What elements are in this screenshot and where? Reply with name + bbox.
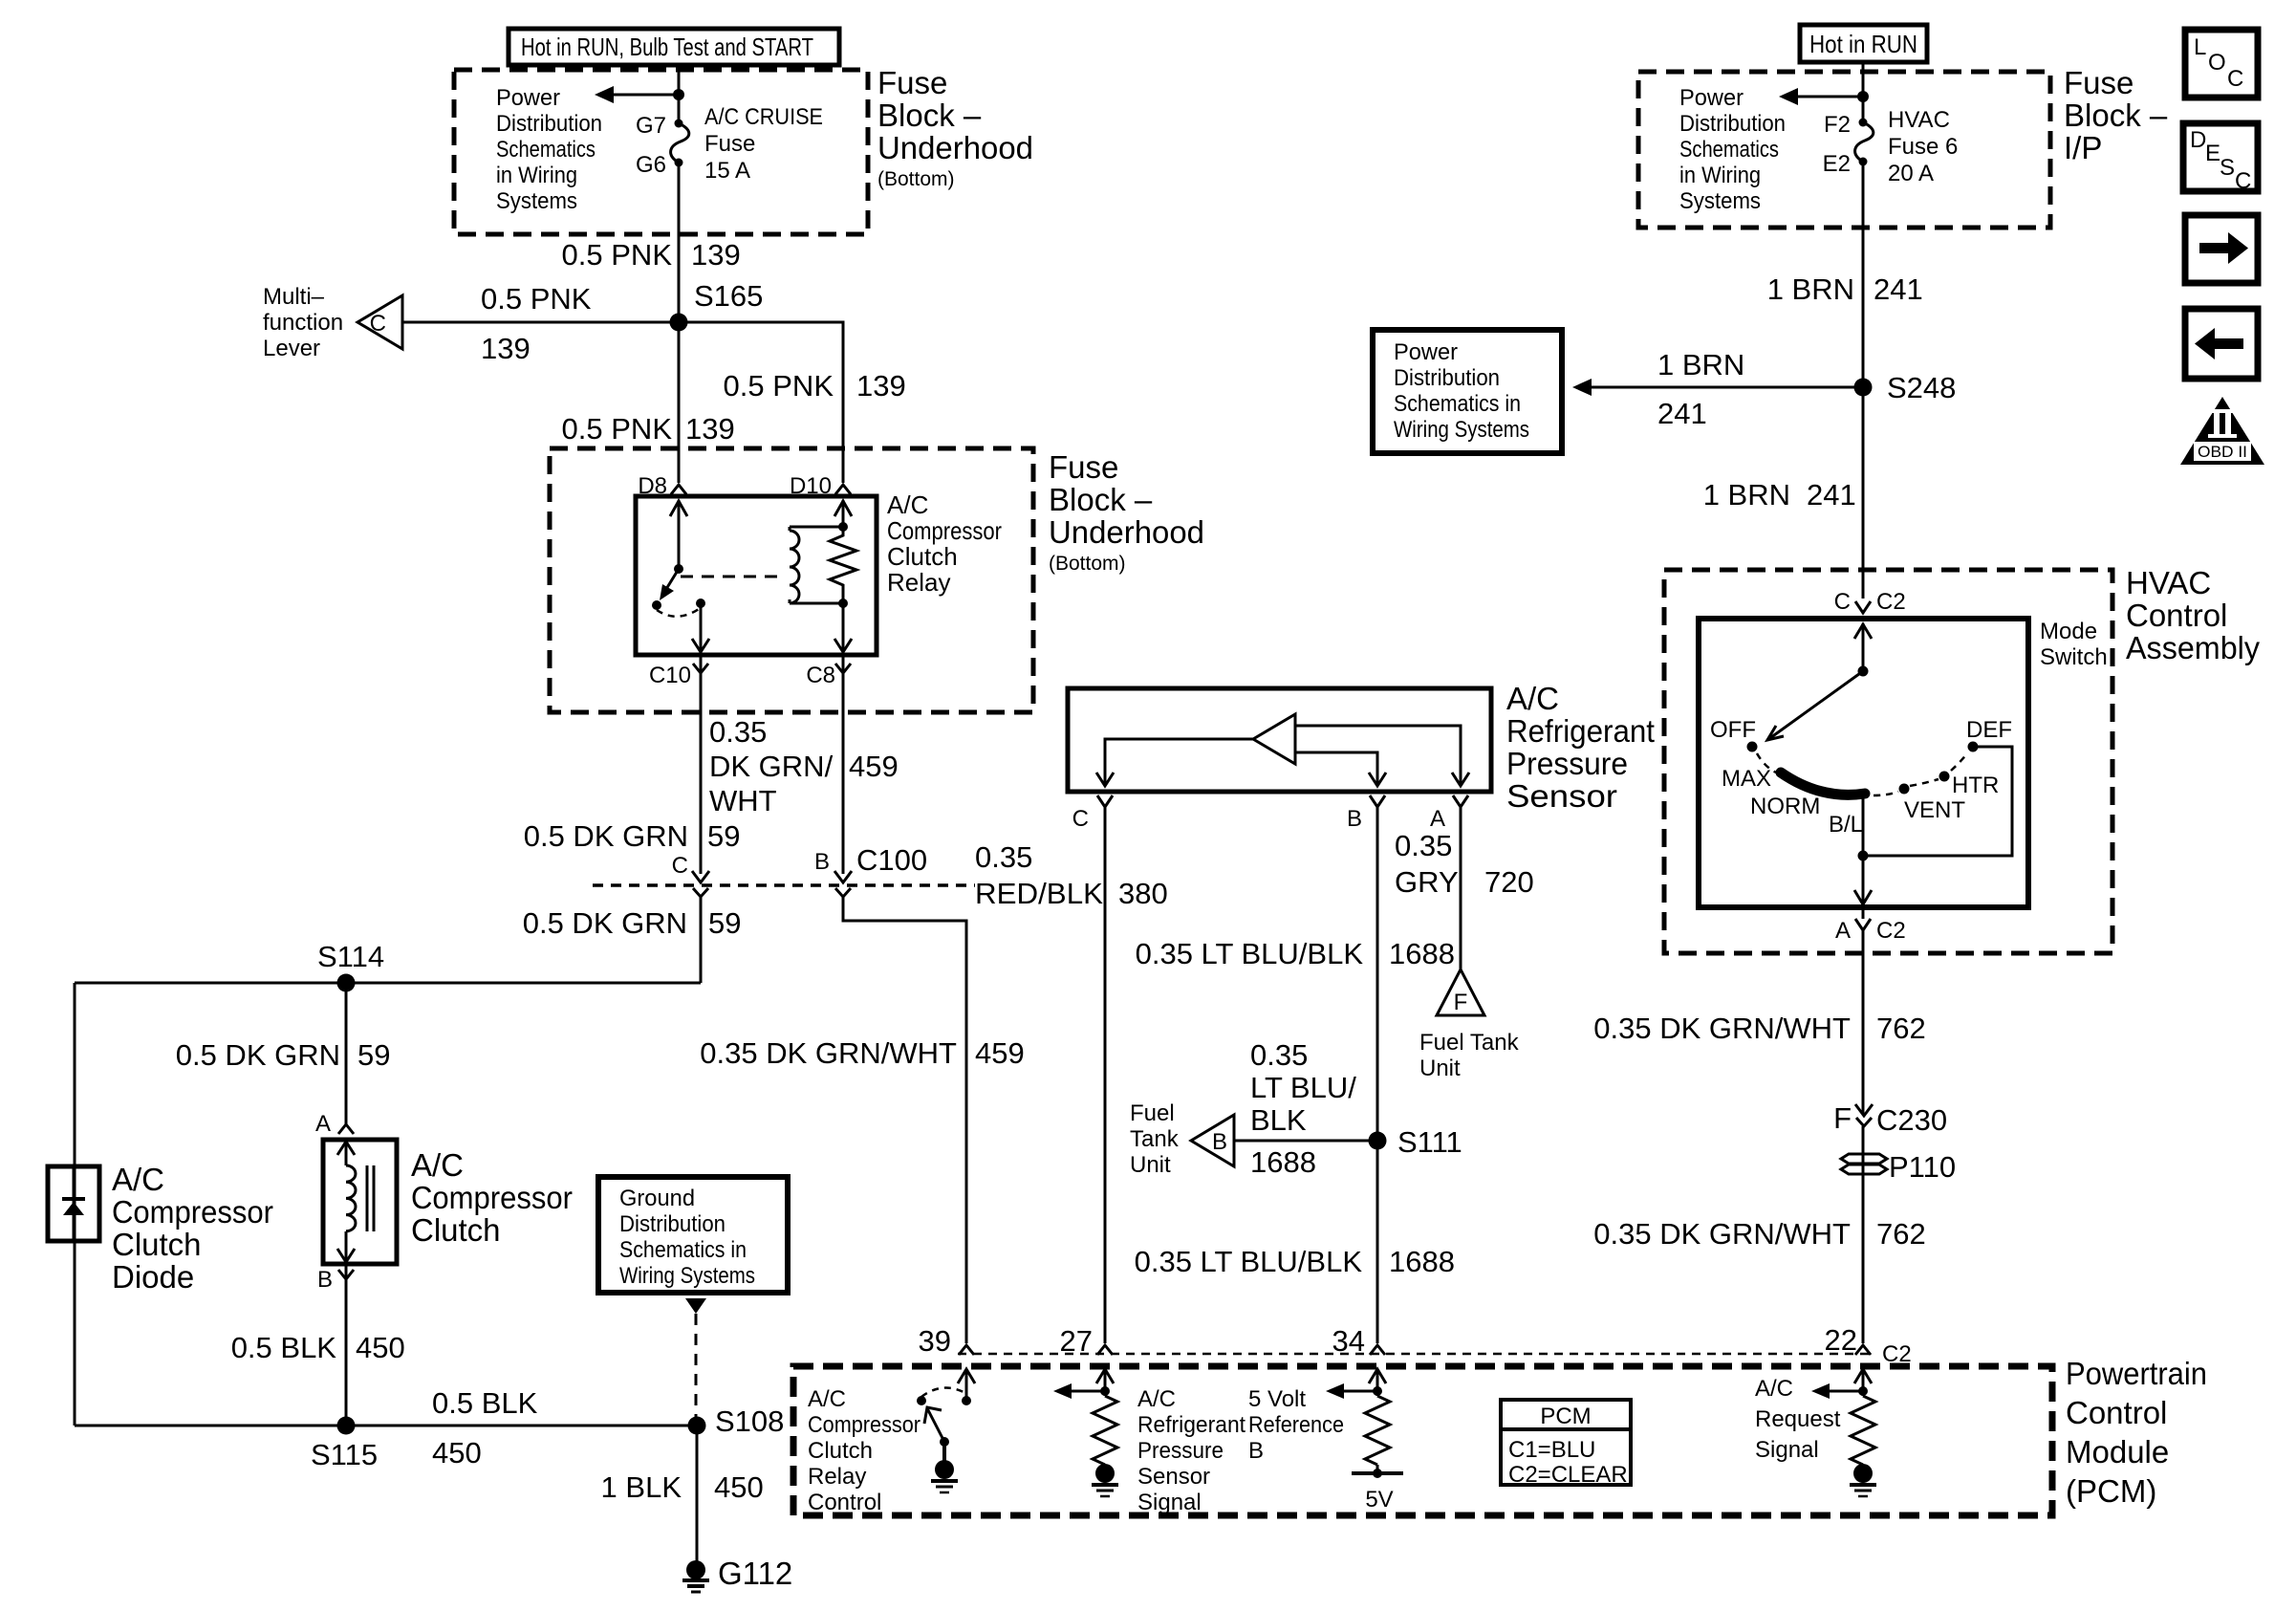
wire from Hot in RUN down: [1862, 62, 1865, 121]
label HVAC Control Assembly: [2126, 565, 2260, 665]
svg-text:in Wiring: in Wiring: [1679, 163, 1761, 188]
pin B of C100: [814, 843, 927, 897]
fuse value label "A/C CRUISE Fuse 15 A": [704, 104, 823, 184]
svg-text:59: 59: [708, 906, 741, 940]
svg-text:A/C: A/C: [411, 1147, 464, 1183]
svg-text:B/L: B/L: [1829, 812, 1863, 838]
svg-text:Fuel Tank: Fuel Tank: [1419, 1030, 1520, 1056]
svg-text:0.35: 0.35: [1395, 829, 1452, 862]
sensor label: [1506, 681, 1655, 814]
svg-text:1 BRN: 1 BRN: [1657, 348, 1744, 381]
svg-text:RED/BLK: RED/BLK: [975, 877, 1103, 910]
splice S165: [670, 314, 688, 332]
splice S114: [337, 974, 356, 992]
svg-text:F: F: [1833, 1101, 1852, 1135]
ground distribution schematics box: [598, 1177, 788, 1293]
svg-text:Fuel: Fuel: [1130, 1100, 1175, 1126]
label Multi-function Lever: [263, 284, 343, 361]
svg-text:E2: E2: [1823, 151, 1851, 177]
svg-text:Unit: Unit: [1130, 1152, 1171, 1178]
svg-text:A/C: A/C: [1506, 681, 1559, 716]
wire label 0.35 DK GRN/WHT 459 (3 lines): [709, 715, 899, 817]
svg-text:1688: 1688: [1250, 1145, 1316, 1179]
svg-text:Underhood: Underhood: [877, 130, 1033, 165]
fuse block underhood dashed box: [454, 70, 868, 234]
wire C230 to P110: [1862, 1126, 1865, 1186]
dashed throw arc: [657, 609, 699, 617]
svg-text:Fuse: Fuse: [704, 131, 755, 157]
pin 22 / C2: [1825, 1323, 1912, 1367]
svg-text:B: B: [1347, 806, 1362, 832]
diode symbol: [62, 1166, 85, 1241]
svg-text:Hot in RUN, Bulb Test and STAR: Hot in RUN, Bulb Test and START: [521, 33, 813, 61]
mode switch common wire with up arrow: [1854, 623, 1872, 677]
svg-text:1688: 1688: [1389, 937, 1455, 970]
label A/C Request Signal: [1755, 1376, 1841, 1463]
header box "Hot in RUN, Bulb Test and START": [509, 29, 839, 65]
pin C of C100: [672, 853, 709, 897]
wire label 0.35 RED/BLK 380: [975, 840, 1168, 910]
switch output to C10: [700, 603, 703, 650]
svg-text:Clutch: Clutch: [112, 1227, 202, 1262]
label Mode Switch: [2040, 619, 2108, 670]
svg-text:0.5 PNK: 0.5 PNK: [724, 369, 834, 403]
svg-text:0.35: 0.35: [1250, 1038, 1308, 1072]
wire C10 down to C100: [700, 673, 703, 874]
svg-text:Assembly: Assembly: [2126, 630, 2260, 665]
pin D8: [638, 473, 686, 499]
A/C refrigerant pressure sensor box: [1068, 688, 1491, 792]
clutch plates (two bars): [367, 1165, 374, 1231]
svg-text:S: S: [2220, 155, 2235, 181]
pin A of sensor: [1430, 795, 1468, 832]
wire S165 down to relay D8: [678, 322, 681, 483]
fuse HVAC Fuse 6 20A (F2-E2): [1855, 119, 1874, 166]
wiper arm to OFF: [1767, 671, 1863, 740]
svg-text:0.35 DK GRN/WHT: 0.35 DK GRN/WHT: [700, 1036, 957, 1070]
wire sensor B down to S111: [1376, 807, 1379, 1141]
PCM connector legend box: [1501, 1400, 1631, 1488]
svg-text:Block –: Block –: [2064, 98, 2168, 133]
relay label: [887, 490, 1002, 597]
pin D10: [790, 473, 851, 499]
relay coil: [790, 527, 845, 603]
svg-text:G6: G6: [636, 152, 666, 178]
margin icon arrow left: [2185, 309, 2258, 379]
svg-text:Tank: Tank: [1130, 1126, 1180, 1152]
mode switch box: [1699, 619, 2028, 907]
svg-text:380: 380: [1118, 877, 1168, 910]
margin icon DESC: [2183, 123, 2258, 194]
label "Fuse Block - I/P": [2064, 65, 2168, 165]
svg-text:1688: 1688: [1389, 1245, 1455, 1278]
svg-text:B: B: [1248, 1438, 1264, 1464]
svg-text:241: 241: [1657, 397, 1707, 430]
svg-text:HTR: HTR: [1952, 773, 1999, 798]
power distribution schematics note (I/P fuse block): [1679, 85, 1786, 214]
wire C100-C down to S114 line: [700, 897, 703, 983]
svg-text:Fuse 6: Fuse 6: [1888, 134, 1958, 160]
ground G112: [682, 1556, 792, 1592]
wire S115 to S108: [75, 1425, 697, 1427]
splice S108: [688, 1417, 706, 1435]
svg-text:59: 59: [357, 1038, 390, 1072]
sensor amplifier triangle: [1253, 714, 1295, 764]
svg-text:S108: S108: [715, 1404, 784, 1438]
output wire to bottom of mode switch: [1862, 856, 1865, 903]
svg-text:Multi–: Multi–: [263, 284, 325, 310]
svg-text:E: E: [2205, 141, 2220, 166]
label Fuel Tank Unit: [1419, 1030, 1520, 1081]
svg-text:Mode: Mode: [2040, 619, 2097, 644]
wire C100-B down and over to PCM pin 39: [843, 897, 966, 1343]
powertrain control module dashed box: [793, 1366, 2052, 1515]
wire to diode (left branch): [74, 983, 76, 1426]
dashed arc B/L to VENT to HTR: [1874, 792, 1898, 795]
A/C compressor clutch relay box: [636, 496, 877, 655]
svg-text:Reference: Reference: [1248, 1412, 1344, 1438]
svg-text:A: A: [315, 1111, 331, 1137]
label "Fuse Block - Underhood (Bottom)" top left: [877, 65, 1033, 190]
svg-text:C: C: [2235, 168, 2251, 194]
svg-text:Distribution: Distribution: [1394, 365, 1500, 391]
wire HVAC A down to C230: [1862, 930, 1865, 1114]
wire S248 to power distribution (arrow left): [1590, 386, 1863, 389]
pin A / C2 of HVAC: [1835, 907, 1906, 944]
svg-text:139: 139: [481, 332, 531, 365]
svg-text:G7: G7: [636, 113, 666, 139]
svg-text:S165: S165: [694, 279, 763, 313]
position dot OFF: [1747, 742, 1758, 752]
pin C / C2 of HVAC: [1834, 589, 1906, 615]
svg-text:C: C: [672, 853, 688, 879]
B/L output wire down: [1862, 794, 1865, 856]
svg-text:34: 34: [1332, 1324, 1365, 1358]
svg-text:Relay: Relay: [808, 1464, 866, 1490]
svg-text:59: 59: [707, 819, 740, 853]
svg-text:Signal: Signal: [1755, 1437, 1819, 1463]
sensor low line to B: [1295, 752, 1386, 786]
svg-text:0.5 PNK: 0.5 PNK: [562, 238, 673, 272]
wire clutch B down to S115: [345, 1279, 348, 1426]
svg-text:Sensor: Sensor: [1137, 1464, 1210, 1490]
svg-text:Clutch: Clutch: [808, 1438, 873, 1464]
wire S165 to multifunction lever: [402, 321, 679, 324]
svg-text:Control: Control: [2066, 1395, 2167, 1430]
svg-text:0.5 DK GRN: 0.5 DK GRN: [523, 906, 687, 940]
label A/C Compressor Clutch Relay Control: [808, 1386, 921, 1515]
margin icon OBD II triangle: [2180, 397, 2264, 465]
svg-text:450: 450: [432, 1436, 482, 1469]
ground (A/C request): [1853, 1464, 1873, 1483]
svg-text:0.35 LT BLU/BLK: 0.35 LT BLU/BLK: [1136, 937, 1364, 970]
svg-text:A/C: A/C: [112, 1162, 164, 1197]
svg-text:Compressor: Compressor: [112, 1194, 273, 1230]
margin icon arrow right: [2185, 215, 2258, 283]
wire S111 to fuel tank unit B: [1234, 1140, 1377, 1143]
node S114 horizontal wire: [75, 982, 701, 985]
pin 39: [919, 1324, 974, 1358]
ground (sensor signal): [1095, 1464, 1115, 1483]
svg-text:Lever: Lever: [263, 336, 320, 361]
svg-text:G112: G112: [718, 1556, 792, 1591]
svg-text:Powertrain: Powertrain: [2066, 1356, 2207, 1391]
svg-text:Distribution: Distribution: [496, 111, 602, 137]
svg-text:241: 241: [1807, 478, 1856, 512]
svg-text:27: 27: [1060, 1324, 1093, 1358]
svg-text:(Bottom): (Bottom): [877, 168, 955, 190]
svg-text:A/C: A/C: [1755, 1376, 1793, 1402]
svg-text:0.35 DK GRN/WHT: 0.35 DK GRN/WHT: [1593, 1012, 1851, 1045]
splice S248: [1854, 379, 1873, 397]
svg-text:1 BRN: 1 BRN: [1703, 478, 1790, 512]
svg-text:C1=BLU: C1=BLU: [1508, 1437, 1595, 1463]
power distribution schematics box (solid): [1373, 330, 1562, 453]
svg-text:0.35 LT BLU/BLK: 0.35 LT BLU/BLK: [1135, 1245, 1363, 1278]
svg-text:S248: S248: [1887, 371, 1956, 404]
svg-text:B: B: [1212, 1129, 1227, 1155]
svg-text:39: 39: [919, 1324, 951, 1358]
svg-text:C2=CLEAR: C2=CLEAR: [1508, 1462, 1628, 1488]
svg-text:LT BLU/: LT BLU/: [1250, 1071, 1356, 1104]
svg-text:A/C CRUISE: A/C CRUISE: [704, 104, 823, 130]
label 5 Volt Reference B: [1248, 1386, 1344, 1464]
svg-text:Hot in RUN: Hot in RUN: [1809, 30, 1917, 58]
svg-text:C: C: [2227, 66, 2243, 92]
svg-text:HVAC: HVAC: [2126, 565, 2211, 600]
svg-text:DEF: DEF: [1966, 717, 2012, 743]
svg-text:F2: F2: [1824, 112, 1851, 138]
position dot DEF: [1968, 742, 1979, 752]
svg-text:C230: C230: [1876, 1103, 1947, 1137]
node: feed to power distribution (arrow left): [1796, 96, 1863, 98]
label A/C Compressor Clutch: [411, 1147, 573, 1248]
wire S114 down to clutch A: [345, 983, 348, 1124]
svg-text:Request: Request: [1755, 1406, 1841, 1432]
5V rail: [1376, 1465, 1379, 1473]
svg-text:DK GRN/: DK GRN/: [709, 750, 834, 783]
svg-text:Power: Power: [1679, 85, 1744, 111]
HVAC control assembly dashed box: [1664, 570, 2112, 953]
svg-text:Block –: Block –: [1049, 482, 1153, 517]
A/C compressor clutch relay control driver (switch to ground): [917, 1369, 975, 1492]
svg-text:Pressure: Pressure: [1506, 746, 1628, 781]
svg-text:S115: S115: [311, 1438, 378, 1471]
PCM connector line (thin dashed): [958, 1353, 1874, 1356]
connector C230 pin F: [1833, 1101, 1947, 1137]
wire S165 right branch to relay D10: [679, 322, 843, 483]
svg-text:B: B: [814, 849, 830, 875]
DEF wire loop to output: [1863, 747, 2012, 856]
dashed arc OFF to MAX: [1757, 753, 1776, 773]
svg-text:0.5 PNK: 0.5 PNK: [481, 282, 592, 316]
svg-text:Schematics: Schematics: [496, 137, 596, 163]
svg-text:139: 139: [691, 238, 741, 272]
relay mechanical link (dashed): [681, 576, 778, 578]
svg-text:0.35: 0.35: [975, 840, 1032, 874]
A/C compressor clutch box: [323, 1140, 397, 1264]
wire C8 down to C100: [842, 673, 845, 874]
svg-text:S111: S111: [1397, 1125, 1462, 1159]
svg-text:A: A: [1835, 918, 1851, 944]
5 volt reference B (pull-up resistor to 5V): [1326, 1369, 1403, 1513]
connector F fuel tank unit (triangle): [1437, 969, 1484, 1015]
svg-text:Control: Control: [808, 1490, 881, 1515]
svg-text:HVAC: HVAC: [1888, 107, 1950, 133]
svg-text:Systems: Systems: [1679, 188, 1761, 214]
svg-text:Distribution: Distribution: [1679, 111, 1786, 137]
label Fuel Tank Unit (left): [1130, 1100, 1180, 1178]
wire fuse to S165: [678, 163, 681, 322]
wire S248 down to HVAC: [1862, 387, 1865, 599]
svg-text:in Wiring: in Wiring: [496, 163, 577, 188]
svg-text:Clutch: Clutch: [887, 542, 958, 571]
fuse A/C CRUISE 15A (G7-G6): [671, 120, 689, 167]
svg-text:450: 450: [356, 1331, 405, 1364]
svg-text:0.5 DK GRN: 0.5 DK GRN: [176, 1038, 340, 1072]
svg-text:OBD II: OBD II: [2198, 443, 2247, 461]
arrow from ground distribution box down: [685, 1298, 706, 1314]
grommet P110: [1841, 1150, 1956, 1184]
svg-text:C: C: [1834, 589, 1851, 615]
svg-text:Schematics: Schematics: [1679, 137, 1779, 163]
svg-text:VENT: VENT: [1904, 797, 1965, 823]
svg-text:762: 762: [1876, 1217, 1926, 1251]
svg-text:459: 459: [975, 1036, 1025, 1070]
fuse block underhood (bottom) dashed box around relay: [550, 448, 1033, 712]
relay coil suppression resistor: [830, 500, 856, 652]
svg-text:22: 22: [1825, 1323, 1857, 1357]
splice S111: [1369, 1132, 1387, 1150]
svg-text:C2: C2: [1882, 1341, 1912, 1367]
fuse value label "HVAC Fuse 6 20 A": [1888, 107, 1958, 186]
svg-text:B: B: [317, 1267, 333, 1293]
movable contact arm: [663, 569, 679, 594]
svg-text:Systems: Systems: [496, 188, 577, 214]
wire P110 down to PCM pin 22: [1862, 1182, 1865, 1343]
svg-text:0.5 DK GRN: 0.5 DK GRN: [524, 819, 688, 853]
wire from header box down to fuse: [678, 65, 681, 122]
pin B of sensor: [1347, 795, 1385, 832]
svg-text:Compressor: Compressor: [887, 516, 1002, 545]
pin A of clutch: [315, 1111, 354, 1137]
relay switch: common from D8: [652, 500, 709, 652]
wire fuse down to S248: [1862, 162, 1865, 387]
svg-text:459: 459: [849, 750, 899, 783]
svg-text:C2: C2: [1876, 918, 1906, 944]
connector C100 (dashed line): [593, 883, 975, 887]
label Powertrain Control Module (PCM): [2066, 1356, 2207, 1509]
svg-text:A: A: [1430, 806, 1445, 832]
svg-text:0.35 DK GRN/WHT: 0.35 DK GRN/WHT: [1593, 1217, 1851, 1251]
pin C10: [649, 655, 708, 688]
svg-text:15 A: 15 A: [704, 158, 750, 184]
svg-text:D: D: [2190, 127, 2206, 153]
wire S108 down to G112: [696, 1426, 699, 1562]
svg-text:function: function: [263, 310, 343, 336]
connector B fuel tank unit (triangle): [1191, 1115, 1234, 1166]
svg-text:Power: Power: [1394, 339, 1458, 365]
wire sensor C down to PCM pin 27: [1104, 807, 1107, 1343]
wiper contact arc (thick) MAX to B/L: [1781, 773, 1865, 795]
svg-text:139: 139: [856, 369, 906, 403]
svg-text:0.5 BLK: 0.5 BLK: [231, 1331, 337, 1364]
svg-text:450: 450: [714, 1470, 764, 1504]
svg-text:Refrigerant: Refrigerant: [1506, 713, 1655, 749]
svg-text:20 A: 20 A: [1888, 161, 1934, 186]
label "Fuse Block - Underhood (Bottom)" beside relay box: [1049, 449, 1204, 575]
svg-text:NORM: NORM: [1750, 794, 1820, 819]
svg-text:C: C: [1072, 806, 1089, 832]
svg-text:Signal: Signal: [1137, 1490, 1202, 1515]
svg-text:762: 762: [1876, 1012, 1926, 1045]
ground (relay control): [935, 1460, 954, 1479]
svg-text:GRY: GRY: [1395, 865, 1459, 899]
svg-text:A/C: A/C: [887, 490, 928, 519]
svg-text:Fuse: Fuse: [2064, 65, 2134, 100]
svg-text:0.5 PNK: 0.5 PNK: [562, 412, 673, 446]
svg-text:O: O: [2208, 50, 2226, 76]
svg-text:Diode: Diode: [112, 1259, 194, 1295]
wire S111 down to PCM pin 34: [1376, 1141, 1379, 1343]
svg-text:1 BLK: 1 BLK: [601, 1470, 682, 1504]
svg-text:C: C: [370, 311, 386, 337]
wire sensor A down to fuel tank unit F: [1460, 807, 1462, 969]
pin 34: [1332, 1324, 1385, 1358]
svg-text:BLK: BLK: [1250, 1103, 1307, 1137]
svg-text:Sensor: Sensor: [1506, 778, 1617, 814]
label A/C Compressor Clutch Diode: [112, 1162, 273, 1295]
label A/C Refrigerant Pressure Sensor Signal: [1137, 1386, 1245, 1515]
svg-text:Pressure: Pressure: [1137, 1438, 1224, 1464]
svg-text:Block –: Block –: [877, 98, 982, 133]
node: feed to power distribution (arrow left): [612, 94, 679, 97]
svg-text:P110: P110: [1889, 1150, 1956, 1184]
svg-text:Relay: Relay: [887, 568, 950, 597]
svg-text:Wiring Systems: Wiring Systems: [1394, 417, 1529, 443]
svg-text:F: F: [1454, 990, 1468, 1015]
svg-text:Underhood: Underhood: [1049, 514, 1204, 550]
svg-text:I/P: I/P: [2064, 130, 2102, 165]
A/C refrigerant pressure sensor signal input (pull-up resistor to ground): [1053, 1369, 1118, 1496]
pin C8: [806, 655, 851, 688]
A/C request signal input (resistor to ground): [1811, 1369, 1876, 1496]
dashed arc HTR to DEF: [1951, 753, 1967, 771]
svg-text:0.35: 0.35: [709, 715, 767, 749]
pin B of clutch: [317, 1264, 354, 1293]
power distribution schematics note (underhood fuse block): [496, 85, 602, 214]
svg-text:Control: Control: [2126, 598, 2227, 633]
svg-text:Ground: Ground: [619, 1186, 695, 1211]
svg-text:Compressor: Compressor: [411, 1180, 573, 1215]
svg-text:(PCM): (PCM): [2066, 1473, 2156, 1509]
svg-text:5 Volt: 5 Volt: [1248, 1386, 1306, 1412]
svg-text:Power: Power: [496, 85, 560, 111]
svg-text:OFF: OFF: [1710, 717, 1756, 743]
connector C to multi-function lever (triangle): [357, 295, 402, 349]
svg-text:C8: C8: [806, 663, 835, 688]
svg-text:139: 139: [685, 412, 735, 446]
svg-text:Fuse: Fuse: [877, 65, 947, 100]
svg-text:5V: 5V: [1365, 1487, 1393, 1513]
svg-text:Clutch: Clutch: [411, 1212, 501, 1248]
position dot HTR: [1939, 772, 1950, 782]
svg-text:241: 241: [1874, 272, 1923, 306]
dashed wire to S108: [695, 1314, 698, 1419]
pin C of sensor: [1072, 795, 1113, 832]
sensor output line to C: [1096, 739, 1253, 786]
svg-text:0.5 BLK: 0.5 BLK: [432, 1386, 538, 1420]
